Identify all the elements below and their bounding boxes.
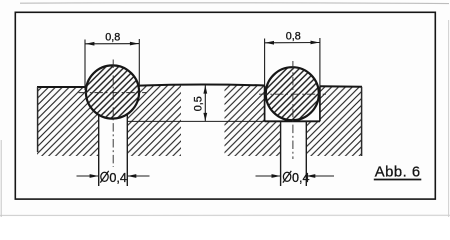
groove right wall xyxy=(319,86,321,121)
block right edge xyxy=(361,87,363,156)
right slot right wall + extension xyxy=(305,121,307,186)
dim dia 0,4 right: arrow pointing left xyxy=(306,174,315,178)
surface line right segment xyxy=(320,85,362,88)
dim dia 0,4 left: arrow pointing right xyxy=(90,174,99,178)
white cutout: left wire seat xyxy=(86,65,140,119)
border frame xyxy=(15,12,435,199)
dim 0,8 left: extension line left xyxy=(84,40,86,91)
wire W2 hatched circle xyxy=(266,67,319,120)
svg-text:0,4: 0,4 xyxy=(109,171,127,185)
dim 0,5: arrow up xyxy=(203,85,207,93)
centerline vertical W1 xyxy=(112,60,114,168)
dim 0,8 right: arrow left xyxy=(265,41,274,45)
dim 0,8 right: dimension line xyxy=(265,42,320,44)
dim dia 0,4 right: tail left xyxy=(256,175,281,177)
dim 0,8 right: extension line right xyxy=(319,38,321,86)
surface line left segment xyxy=(37,86,86,88)
dim dia 0,4 left: tail left xyxy=(77,175,99,177)
white cutout: left slot xyxy=(99,100,128,156)
dim dia 0,4 left: diameter symbol xyxy=(100,171,108,183)
white cutout: right groove xyxy=(265,85,320,121)
dim 0,5: dimension line xyxy=(204,85,206,121)
wire W1 hatched circle xyxy=(86,65,139,118)
svg-text:0,4: 0,4 xyxy=(292,171,310,185)
centerline vertical W2 xyxy=(292,61,294,159)
centerline horizontal W2 xyxy=(259,93,326,95)
left slot right wall + extension xyxy=(126,115,128,186)
white cutout: dimension channel xyxy=(181,83,225,157)
dim dia 0,4 right: diameter symbol xyxy=(283,171,291,183)
scan streak bottom xyxy=(0,214,450,216)
scan streak right xyxy=(448,20,450,217)
left slot left wall + extension xyxy=(98,116,100,187)
svg-text:0,8: 0,8 xyxy=(105,31,120,43)
svg-text:0,8: 0,8 xyxy=(286,30,301,42)
caption underline xyxy=(374,179,422,181)
dim dia 0,4 left: arrow pointing left xyxy=(127,174,136,178)
dim dia 0,4 right: tail right xyxy=(306,175,334,177)
dim 0,8 right: arrow right xyxy=(311,41,320,45)
dim 0,8 right: extension line left xyxy=(264,39,266,87)
recess boundary line (thin, between wires) xyxy=(128,120,265,122)
surface line middle segment xyxy=(139,84,265,85)
white cutout: right slot xyxy=(281,121,307,157)
centerline horizontal W1 xyxy=(79,92,148,94)
dim 0,5: arrow down xyxy=(203,113,207,121)
groove bottom edge xyxy=(265,120,320,122)
block left edge xyxy=(37,87,39,152)
dim dia 0,4 right: arrow pointing right xyxy=(272,174,281,178)
hatched block body xyxy=(37,85,362,156)
svg-text:0,5: 0,5 xyxy=(193,96,205,111)
dim 0,8 left: dimension line xyxy=(85,43,139,45)
dim dia 0,4 left: tail right xyxy=(127,175,149,177)
svg-text:Abb. 6: Abb. 6 xyxy=(375,164,421,180)
groove left wall xyxy=(264,86,266,121)
dim 0,8 left: arrow right xyxy=(130,42,139,46)
right slot left wall + extension xyxy=(280,121,282,186)
scan streak top xyxy=(20,2,449,5)
dim 0,8 left: extension line right xyxy=(138,39,140,87)
dim 0,8 left: arrow left xyxy=(85,42,94,46)
scan streak left xyxy=(0,140,2,217)
